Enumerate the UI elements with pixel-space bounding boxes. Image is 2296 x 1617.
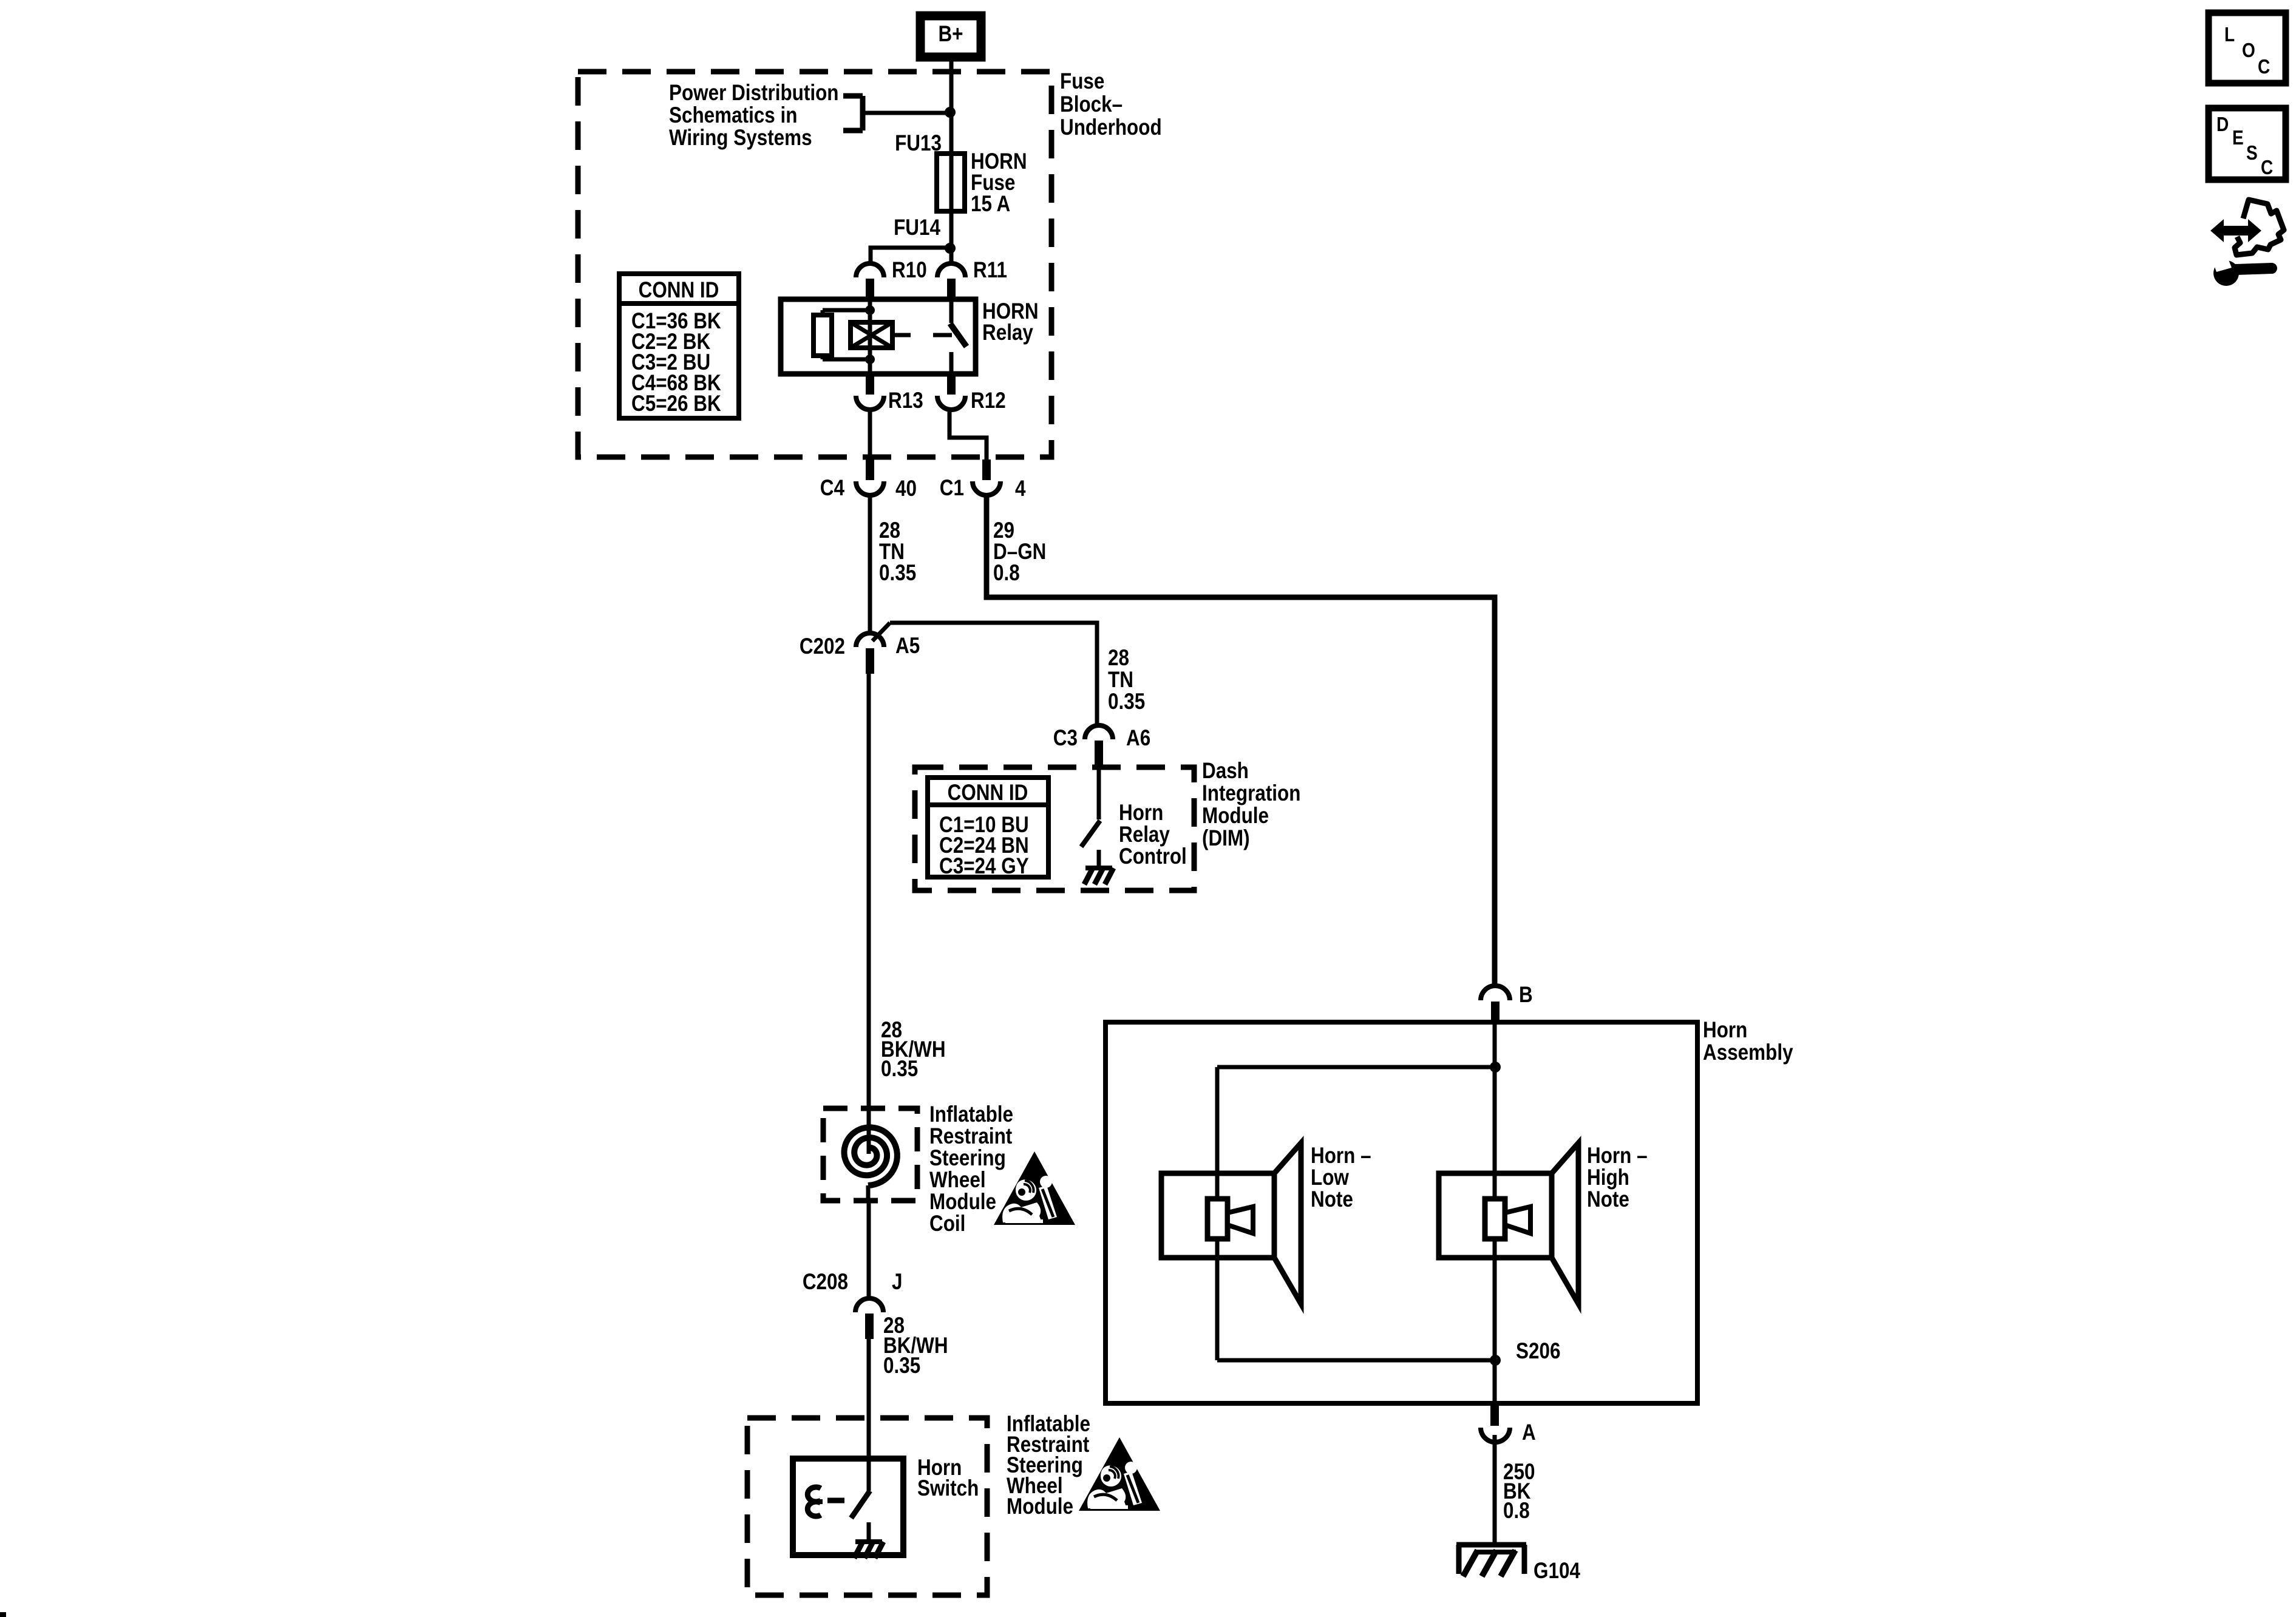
svg-text:Horn: Horn <box>1703 1018 1747 1043</box>
svg-text:E: E <box>2232 127 2244 149</box>
svg-text:Horn –: Horn – <box>1311 1144 1371 1168</box>
svg-text:Assembly: Assembly <box>1703 1040 1793 1065</box>
svg-text:R10: R10 <box>892 258 927 283</box>
label C208 <box>803 1270 848 1295</box>
svg-text:0.8: 0.8 <box>1503 1499 1530 1524</box>
svg-text:0.35: 0.35 <box>879 561 916 586</box>
wire high note main <box>1493 1067 1497 1403</box>
wire C208 to horn switch <box>867 1339 871 1491</box>
steering wheel module dashed box <box>747 1418 987 1595</box>
label FU13 <box>895 131 942 156</box>
svg-text:S206: S206 <box>1516 1339 1560 1364</box>
svg-text:C3: C3 <box>1053 726 1078 751</box>
connector A <box>1481 1403 1510 1442</box>
svg-text:CONN ID: CONN ID <box>639 278 719 303</box>
svg-text:A: A <box>1522 1420 1536 1445</box>
svg-text:C5=26 BK: C5=26 BK <box>631 392 721 416</box>
svg-text:0.35: 0.35 <box>883 1354 920 1378</box>
DIM dashed box <box>915 767 1194 890</box>
label Horn Switch <box>917 1456 979 1501</box>
connector C208 J <box>855 1298 883 1339</box>
icon LOC box <box>2209 13 2286 83</box>
wire R13 to C4 <box>868 410 872 459</box>
label C202 <box>800 634 845 659</box>
wire C202 to coil <box>867 674 871 1111</box>
label A5 <box>895 634 920 659</box>
node horn feed junction <box>1490 1062 1501 1073</box>
node below B+ <box>945 107 956 118</box>
svg-text:(DIM): (DIM) <box>1202 826 1250 851</box>
svg-text:0.35: 0.35 <box>1108 690 1145 714</box>
svg-text:J: J <box>892 1270 902 1295</box>
label Horn High Note <box>1587 1144 1648 1212</box>
svg-text:Note: Note <box>1587 1187 1629 1212</box>
label Fuse Block-Underhood <box>1060 69 1162 140</box>
svg-text:0.8: 0.8 <box>993 561 1020 586</box>
label 40 <box>895 476 917 501</box>
svg-text:4: 4 <box>1015 476 1025 501</box>
relay coil <box>851 299 892 374</box>
connector R12 <box>937 374 965 410</box>
svg-text:C: C <box>2258 56 2270 78</box>
wire FU14 to R10 <box>871 211 951 263</box>
svg-text:Inflatable: Inflatable <box>929 1102 1013 1127</box>
svg-text:R11: R11 <box>973 258 1007 283</box>
label A6 <box>1126 726 1150 751</box>
svg-text:40: 40 <box>895 476 917 501</box>
svg-text:Dash: Dash <box>1202 759 1249 784</box>
svg-text:TN: TN <box>1108 668 1133 693</box>
svg-text:S: S <box>2246 142 2258 164</box>
relay coil resistor <box>813 310 870 359</box>
label 4 <box>1015 476 1025 501</box>
svg-text:C4: C4 <box>820 476 844 501</box>
horn switch box <box>793 1459 903 1555</box>
svg-text:Horn –: Horn – <box>1587 1144 1648 1168</box>
wire branch to low note <box>1217 1067 1495 1360</box>
node FU14 junction <box>945 243 956 254</box>
label HORN Relay <box>982 299 1039 345</box>
warning triangle airbag coil <box>994 1151 1075 1225</box>
svg-text:Wheel: Wheel <box>929 1168 986 1193</box>
wire C4 to C202 <box>868 495 872 632</box>
wire A to G104 <box>1493 1435 1497 1545</box>
wire B+ to HORN fuse <box>949 61 954 154</box>
label S206 <box>1516 1339 1560 1364</box>
DIM CONN ID table <box>928 778 1048 879</box>
wire S206 splice <box>1217 1358 1495 1363</box>
connector R13 <box>856 374 884 410</box>
label Inflatable Restraint Steering Wheel Module Coil <box>929 1102 1013 1236</box>
svg-text:Wiring Systems: Wiring Systems <box>669 126 812 151</box>
svg-text:B: B <box>1519 983 1533 1008</box>
label R10 <box>892 258 927 283</box>
svg-text:A5: A5 <box>895 634 920 659</box>
svg-text:Relay: Relay <box>982 320 1033 345</box>
svg-text:B+: B+ <box>938 22 963 47</box>
label R11 <box>973 258 1007 283</box>
warning triangle airbag module <box>1079 1437 1160 1511</box>
svg-text:Integration: Integration <box>1202 781 1300 806</box>
svg-text:R12: R12 <box>971 388 1006 413</box>
label Dash Integration Module DIM <box>1202 759 1300 851</box>
connector C4 terminal 40 <box>856 459 884 495</box>
wire coil to C208 <box>867 1201 871 1300</box>
splice S206 <box>1490 1355 1501 1366</box>
horn high note speaker <box>1439 1143 1578 1304</box>
label HORN Fuse 15 A <box>971 149 1027 217</box>
label FU14 <box>894 215 940 240</box>
svg-text:High: High <box>1587 1165 1629 1190</box>
label wire 28 TN 0.35 <box>879 518 916 586</box>
label wire 28 BK/WH 0.35 lower <box>883 1314 948 1378</box>
svg-text:Switch: Switch <box>917 1476 979 1501</box>
svg-text:Horn: Horn <box>1119 801 1163 825</box>
svg-text:Steering: Steering <box>929 1146 1006 1171</box>
note power distribution schematics <box>669 81 838 151</box>
svg-text:D: D <box>2216 114 2229 136</box>
svg-text:A6: A6 <box>1126 726 1150 751</box>
svg-text:C202: C202 <box>800 634 845 659</box>
svg-text:Restraint: Restraint <box>929 1124 1013 1149</box>
ground in DIM <box>1084 850 1113 884</box>
label A <box>1522 1420 1536 1445</box>
svg-text:15 A: 15 A <box>971 192 1010 217</box>
label J <box>892 1270 902 1295</box>
svg-text:Schematics in: Schematics in <box>669 103 797 128</box>
connector C1 terminal 4 <box>973 459 1000 495</box>
power symbol B+ <box>920 16 981 57</box>
svg-text:Underhood: Underhood <box>1060 115 1162 140</box>
label R13 <box>888 388 923 413</box>
svg-text:C3=24 GY: C3=24 GY <box>939 854 1029 879</box>
wire branch to DIM <box>872 623 1097 726</box>
svg-text:C1: C1 <box>940 476 964 501</box>
label Inflatable Restraint Steering Wheel Module <box>1007 1412 1090 1519</box>
label wire 250 BK 0.8 <box>1503 1460 1535 1524</box>
label G104 <box>1533 1559 1580 1584</box>
svg-text:28: 28 <box>1108 646 1129 671</box>
horn relay control switch <box>1081 766 1100 847</box>
fuse block underhood dashed box <box>578 72 1051 457</box>
label C1 <box>940 476 964 501</box>
horn low note speaker <box>1161 1143 1301 1304</box>
label Horn Assembly <box>1703 1018 1793 1065</box>
svg-text:Power Distribution: Power Distribution <box>669 81 838 106</box>
label Horn Relay Control <box>1119 801 1187 869</box>
label R12 <box>971 388 1006 413</box>
icon DESC box <box>2209 108 2286 180</box>
svg-text:Note: Note <box>1311 1187 1353 1212</box>
label wire 29 D-GN 0.8 <box>993 518 1046 586</box>
label wire 28 BK/WH 0.35 upper <box>881 1018 946 1082</box>
label Horn Low Note <box>1311 1144 1371 1212</box>
connector B <box>1481 986 1510 1022</box>
ground G104 <box>1456 1545 1526 1576</box>
svg-text:Control: Control <box>1119 844 1187 869</box>
clockspring coil spiral <box>844 1108 897 1201</box>
ground in horn switch <box>854 1522 883 1558</box>
label C4 <box>820 476 844 501</box>
svg-text:C208: C208 <box>803 1270 848 1295</box>
wire B to junction <box>1493 1022 1497 1067</box>
svg-text:Coil: Coil <box>929 1212 965 1236</box>
svg-text:Module: Module <box>1007 1494 1073 1519</box>
svg-text:Relay: Relay <box>1119 822 1170 847</box>
horn switch link dash <box>827 1498 844 1503</box>
horn switch blade <box>851 1491 870 1518</box>
wire C1 to horn assembly B <box>987 495 1495 986</box>
svg-text:Module: Module <box>1202 804 1269 829</box>
steering wheel coil dashed box <box>823 1108 917 1201</box>
svg-text:G104: G104 <box>1533 1559 1580 1584</box>
label C3 <box>1053 726 1078 751</box>
svg-text:L: L <box>2224 24 2235 46</box>
svg-text:0.35: 0.35 <box>881 1057 918 1082</box>
connector C3 A6 <box>1085 725 1113 766</box>
svg-text:R13: R13 <box>888 388 923 413</box>
fuse HORN 15A <box>937 154 965 211</box>
svg-text:FU14: FU14 <box>894 215 940 240</box>
connector R10 <box>856 263 884 299</box>
connector R11 <box>937 263 965 299</box>
relay switch <box>892 299 966 374</box>
relay HORN box <box>781 299 976 374</box>
svg-text:Fuse: Fuse <box>1060 69 1104 94</box>
label wire 28 TN 0.35 DIM branch <box>1108 646 1145 714</box>
horn switch contact <box>807 1487 823 1516</box>
svg-text:Module: Module <box>929 1190 996 1215</box>
connector C202 A5 <box>856 633 884 674</box>
svg-text:CONN ID: CONN ID <box>948 781 1028 805</box>
icon navigation arrows and wrench <box>2210 200 2284 286</box>
page artifact dot bottom-left <box>0 1612 6 1617</box>
horn assembly box <box>1106 1022 1697 1403</box>
svg-text:Low: Low <box>1311 1165 1349 1190</box>
svg-text:O: O <box>2242 39 2255 62</box>
wire to power distribution bracket <box>843 96 951 131</box>
label B <box>1519 983 1533 1008</box>
fuse block CONN ID table <box>619 274 739 418</box>
svg-text:Block–: Block– <box>1060 92 1123 117</box>
wire R12 to C1 <box>949 410 987 459</box>
svg-text:C: C <box>2261 157 2273 179</box>
